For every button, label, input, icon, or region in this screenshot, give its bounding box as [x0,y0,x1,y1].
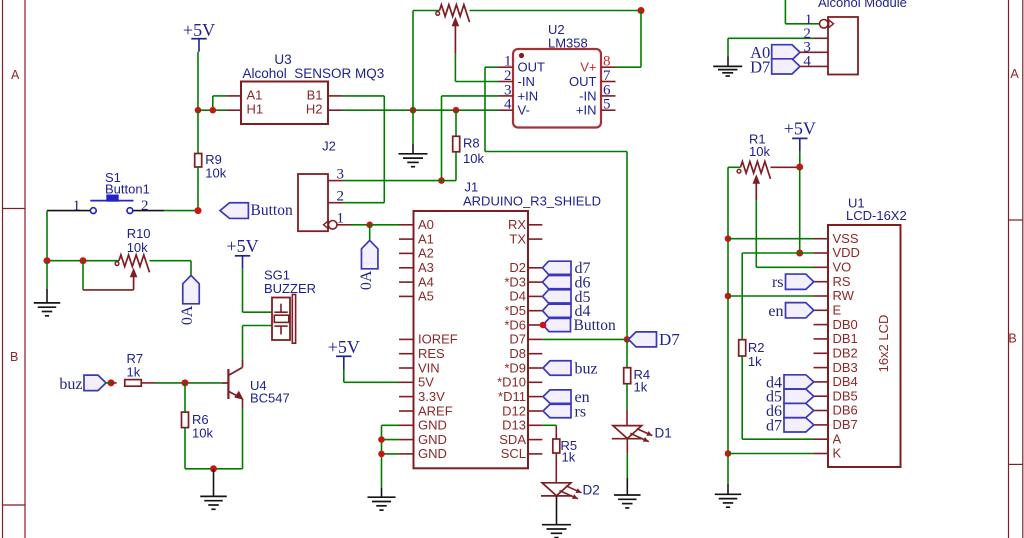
svg-text:DB4: DB4 [833,374,858,389]
svg-text:rs: rs [575,403,587,420]
svg-text:ARDUINO_R3_SHIELD: ARDUINO_R3_SHIELD [463,193,601,208]
svg-text:A4: A4 [418,274,434,289]
svg-text:GND: GND [418,432,447,447]
svg-text:V+: V+ [580,60,596,75]
svg-text:RX: RX [508,217,526,232]
svg-text:Alcohol SENSOR MQ3: Alcohol SENSOR MQ3 [243,66,385,81]
svg-text:A2: A2 [418,246,434,261]
svg-text:10k: 10k [192,426,213,441]
svg-text:Button: Button [251,202,293,219]
svg-text:*D10: *D10 [497,375,526,390]
svg-text:J2: J2 [322,138,336,153]
svg-text:2: 2 [337,189,345,205]
svg-text:A5: A5 [418,289,434,304]
svg-text:10k: 10k [205,166,226,181]
svg-text:RES: RES [418,346,445,361]
svg-text:DB0: DB0 [833,317,858,332]
svg-text:D1: D1 [655,425,672,440]
svg-text:en: en [768,303,783,320]
svg-text:RS: RS [833,274,851,289]
svg-text:VSS: VSS [833,231,859,246]
svg-text:DB2: DB2 [833,346,858,361]
svg-text:+IN: +IN [518,88,539,103]
svg-text:D8: D8 [509,346,526,361]
svg-text:DB7: DB7 [833,417,858,432]
svg-text:10k: 10k [127,240,148,255]
svg-text:SCL: SCL [501,446,526,461]
svg-text:4: 4 [504,97,512,113]
svg-text:BC547: BC547 [250,390,290,405]
svg-text:VO: VO [833,260,852,275]
svg-text:DB3: DB3 [833,360,858,375]
svg-text:GND: GND [418,446,447,461]
svg-text:Button: Button [574,317,616,334]
svg-text:0A: 0A [358,270,375,290]
svg-text:10k: 10k [749,144,770,159]
svg-text:*D11: *D11 [498,389,526,404]
svg-text:16x2 LCD: 16x2 LCD [876,315,891,373]
svg-text:2: 2 [141,198,149,214]
svg-text:*D3: *D3 [504,274,526,289]
svg-text:LM358: LM358 [548,36,588,51]
svg-text:3: 3 [337,167,345,183]
svg-text:D12: D12 [502,403,526,418]
svg-text:A: A [11,68,20,82]
svg-text:d7: d7 [766,417,782,434]
svg-text:D2: D2 [509,260,526,275]
svg-text:R10: R10 [127,226,151,241]
svg-text:1k: 1k [562,450,576,465]
svg-text:A: A [1010,67,1019,81]
svg-text:DB1: DB1 [833,331,858,346]
svg-text:VDD: VDD [833,245,860,260]
svg-text:D2: D2 [583,483,600,498]
svg-text:-IN: -IN [579,88,596,103]
svg-text:SDA: SDA [499,432,526,447]
svg-text:VIN: VIN [418,360,440,375]
svg-text:+5V: +5V [784,119,816,139]
svg-text:A1: A1 [247,87,263,102]
svg-text:*D5: *D5 [504,303,526,318]
svg-text:+IN: +IN [576,103,597,118]
svg-text:1k: 1k [748,354,762,369]
svg-text:LCD-16X2: LCD-16X2 [846,208,907,223]
svg-text:+5V: +5V [328,337,360,357]
svg-text:Alcohol Module: Alcohol Module [818,0,907,10]
svg-text:DB6: DB6 [833,403,858,418]
svg-text:4: 4 [803,53,811,69]
svg-text:OUT: OUT [518,60,546,75]
svg-text:E: E [833,303,842,318]
svg-text:U3: U3 [274,52,291,67]
svg-text:K: K [833,446,842,461]
svg-text:+5V: +5V [183,20,215,40]
svg-text:rs: rs [772,274,784,291]
svg-text:OUT: OUT [569,74,597,89]
svg-text:buz: buz [59,376,82,393]
svg-text:H2: H2 [306,102,323,117]
svg-text:*D9: *D9 [504,360,526,375]
svg-text:IOREF: IOREF [418,332,458,347]
svg-text:Button1: Button1 [105,182,150,197]
svg-text:1k: 1k [634,380,648,395]
svg-text:B: B [10,350,18,364]
svg-text:AREF: AREF [418,403,453,418]
svg-text:buz: buz [575,360,598,377]
svg-text:D7: D7 [659,330,680,349]
svg-text:BUZZER: BUZZER [264,281,316,296]
svg-text:B: B [1008,332,1016,346]
svg-text:D13: D13 [502,418,526,433]
svg-text:10k: 10k [463,151,484,166]
svg-text:5: 5 [603,97,611,113]
svg-text:A3: A3 [418,260,434,275]
svg-text:+5V: +5V [226,236,258,256]
svg-text:*D6: *D6 [504,317,526,332]
svg-text:D4: D4 [509,289,526,304]
svg-text:0A: 0A [179,305,196,325]
svg-text:-IN: -IN [518,74,535,89]
svg-text:R2: R2 [748,340,765,355]
svg-text:B1: B1 [307,87,323,102]
svg-text:DB5: DB5 [833,388,858,403]
svg-text:RW: RW [833,288,855,303]
svg-text:D7: D7 [750,57,770,76]
svg-text:H1: H1 [247,102,264,117]
svg-text:A: A [833,431,842,446]
svg-text:R8: R8 [463,135,480,150]
svg-text:TX: TX [509,231,526,246]
svg-text:D7: D7 [509,332,526,347]
svg-text:V-: V- [518,103,530,118]
svg-text:GND: GND [418,418,447,433]
svg-text:A1: A1 [418,231,434,246]
svg-text:3.3V: 3.3V [418,389,445,404]
svg-text:A0: A0 [418,217,434,232]
svg-text:5V: 5V [418,375,434,390]
svg-text:1: 1 [73,198,81,214]
svg-text:J1: J1 [465,180,479,195]
svg-text:1k: 1k [127,365,141,380]
